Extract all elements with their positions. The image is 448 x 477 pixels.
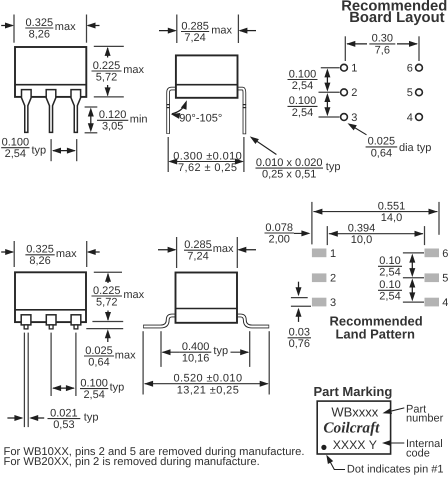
board layout dim 0.30 extension lines — [344, 36, 346, 61]
land pattern dim 0.551 line with arrows — [313, 211, 437, 213]
view D dim 0.400 extension lines — [160, 331, 162, 367]
land pattern pad 5 — [425, 273, 440, 282]
svg-text:10,0: 10,0 — [351, 234, 372, 246]
svg-text:number: number — [406, 413, 444, 425]
svg-text:2,00: 2,00 — [268, 234, 289, 246]
svg-text:0.025: 0.025 — [368, 136, 396, 148]
svg-text:max: max — [55, 21, 76, 33]
board layout dim 0.30/7,6 label — [369, 43, 395, 45]
view C dim 0.225/5,72 max label — [92, 295, 123, 297]
board layout dim 0.100/2,54 second label — [288, 105, 318, 107]
svg-text:5: 5 — [442, 273, 448, 285]
svg-text:min: min — [130, 113, 148, 125]
view B dim 0.285 arrows — [159, 30, 175, 32]
land pattern pad 3 — [312, 298, 327, 307]
view A dim 0.325 extension lines — [13, 15, 15, 43]
svg-text:0,64: 0,64 — [88, 356, 109, 368]
svg-text:0.078: 0.078 — [265, 222, 293, 234]
svg-text:3,05: 3,05 — [102, 121, 123, 133]
svg-text:1: 1 — [330, 248, 336, 260]
svg-text:max: max — [56, 248, 77, 260]
view D body outline — [176, 273, 238, 323]
svg-text:0.225: 0.225 — [93, 60, 121, 72]
svg-text:0.100: 0.100 — [80, 377, 108, 389]
svg-text:4: 4 — [442, 297, 448, 309]
view C dim 0.025/0,64 max label — [84, 355, 114, 357]
svg-text:0.021: 0.021 — [50, 407, 78, 419]
view C dim 0.100 pitch arrows — [53, 387, 74, 389]
svg-text:0.03: 0.03 — [289, 327, 310, 339]
board layout dim 0.100/2,54 first label — [288, 79, 318, 81]
svg-text:Coilcraft: Coilcraft — [323, 420, 380, 437]
svg-text:typ: typ — [32, 145, 47, 157]
board layout dia label 0.025/0,64 dia typ — [366, 146, 398, 148]
part marking pin 1 dot — [321, 445, 326, 450]
view D body base line — [176, 308, 238, 310]
view A body base line — [15, 84, 86, 86]
board layout hole 3 — [341, 114, 348, 121]
svg-text:0.10: 0.10 — [379, 255, 400, 267]
view A body outline — [15, 47, 86, 97]
svg-text:Land Pattern: Land Pattern — [335, 327, 415, 342]
svg-text:0.285: 0.285 — [184, 239, 212, 251]
svg-text:0,53: 0,53 — [53, 419, 74, 431]
svg-text:code: code — [406, 448, 430, 460]
svg-text:0.520 ±0.010: 0.520 ±0.010 — [174, 373, 243, 385]
svg-text:0.225: 0.225 — [93, 285, 121, 297]
land pattern dim rows arrows right — [411, 257, 413, 274]
land pattern pad 2 — [312, 273, 327, 282]
view A dim 0.225/5,72 max label — [92, 70, 122, 72]
internal code leader arrow — [384, 442, 404, 444]
land pattern dim 0.078/2,00 label with arrow — [265, 232, 294, 234]
view A pin 1 — [22, 90, 32, 133]
svg-text:dia typ: dia typ — [399, 142, 431, 154]
view A dim 0.325 arrows — [1, 25, 12, 27]
land pattern dim 0.10/2,54 second label — [378, 289, 402, 291]
view C pin 2 — [46, 315, 56, 325]
svg-text:0.400: 0.400 — [182, 341, 210, 353]
view B dim 0.300 extension lines — [167, 137, 169, 172]
svg-text:typ: typ — [326, 161, 341, 173]
svg-text:0.325: 0.325 — [26, 244, 54, 256]
view C dim 0.021/0,53 typ label — [48, 418, 81, 420]
svg-text:0.10: 0.10 — [379, 279, 400, 291]
view D left gull-wing lead — [143, 316, 176, 327]
land pattern pad 1 — [312, 249, 327, 258]
svg-text:2,54: 2,54 — [379, 267, 400, 279]
svg-text:7,24: 7,24 — [187, 251, 208, 263]
land pattern dim 0.10/2,54 first label — [378, 265, 402, 267]
svg-text:0.010 x 0.020: 0.010 x 0.020 — [256, 157, 323, 169]
view B dim 0.285 extension lines — [176, 15, 178, 44]
part marking box — [317, 401, 390, 454]
view D dim 0.285/7,24 max label — [184, 249, 212, 251]
board layout dim rows arrows — [326, 72, 328, 88]
svg-text:5: 5 — [407, 87, 413, 99]
view C seating plane line — [86, 328, 123, 330]
svg-text:5,72: 5,72 — [96, 296, 117, 308]
svg-text:0,25 x 0,51: 0,25 x 0,51 — [262, 169, 316, 181]
svg-text:0.100: 0.100 — [289, 68, 317, 80]
view D dim 0.285 extension lines — [176, 237, 178, 268]
board layout dim 0.30 arrows — [347, 43, 367, 45]
view A pin 2 — [46, 90, 56, 133]
land pattern pad 4 — [425, 298, 440, 307]
view A dim 0.100 pitch extension lines — [50, 139, 52, 161]
view D right gull-wing lead — [237, 316, 270, 327]
svg-text:1: 1 — [351, 63, 357, 75]
view A dim 0.120 arrows — [90, 112, 92, 128]
view B body outline — [176, 55, 238, 97]
view B left lead hatch marks — [166, 104, 169, 106]
svg-text:3: 3 — [351, 112, 357, 124]
view D dim 0.400/10,16 typ label — [180, 351, 211, 353]
svg-text:0.394: 0.394 — [348, 223, 376, 235]
board layout hole dia leader arrow — [350, 125, 367, 135]
svg-text:5,72: 5,72 — [96, 71, 117, 83]
svg-text:10,16: 10,16 — [182, 353, 210, 365]
land pattern pad height ticks — [291, 297, 308, 299]
svg-text:7,6: 7,6 — [375, 44, 390, 56]
svg-text:0.325: 0.325 — [26, 17, 54, 29]
svg-text:0.100: 0.100 — [289, 95, 317, 107]
view A pin 3 — [71, 90, 81, 133]
view C dim 0.021 arrows — [7, 417, 21, 419]
view C dim 0.225 arrows — [107, 274, 109, 283]
view C pin 2 extension line — [50, 333, 52, 396]
view C dim 0.325/8,26 max label — [25, 254, 54, 256]
board layout hole 4 — [416, 114, 423, 121]
view C body base line — [15, 309, 86, 311]
board layout hole 5 — [416, 89, 423, 96]
land pattern pad 6 — [425, 249, 440, 258]
view C pin 1 — [21, 315, 31, 325]
view B body base line — [176, 84, 238, 86]
svg-text:2: 2 — [330, 273, 336, 285]
view A dim 0.225 extension lines — [94, 45, 124, 47]
view D dim 0.285 arrows — [158, 249, 175, 251]
svg-text:Board Layout: Board Layout — [349, 10, 444, 26]
svg-text:max: max — [213, 243, 234, 255]
svg-text:2,54: 2,54 — [292, 80, 313, 92]
svg-text:0.300 ±0.010: 0.300 ±0.010 — [173, 150, 242, 162]
svg-text:typ: typ — [84, 412, 99, 424]
svg-text:7,24: 7,24 — [184, 32, 205, 44]
land pattern dim 0.551 extension lines — [311, 202, 313, 245]
svg-text:7,62 ± 0,25: 7,62 ± 0,25 — [178, 162, 237, 174]
svg-text:max: max — [123, 64, 144, 76]
svg-text:For WB20XX, pin 2 is removed d: For WB20XX, pin 2 is removed during manu… — [4, 456, 260, 468]
svg-text:3: 3 — [330, 297, 336, 309]
view D dim 0.520 line with arrows — [145, 383, 172, 385]
svg-text:2,54: 2,54 — [292, 107, 313, 119]
svg-text:max: max — [115, 349, 136, 361]
view C body outline — [15, 272, 86, 322]
svg-text:2: 2 — [351, 87, 357, 99]
board layout hole 2 — [341, 89, 348, 96]
view B dim 0.285/7,24 max label — [181, 31, 209, 33]
svg-text:0.285: 0.285 — [181, 20, 209, 32]
view C dim 0.100/2,54 typ label — [80, 388, 108, 390]
svg-text:0.120: 0.120 — [99, 109, 127, 121]
svg-text:WBxxxx: WBxxxx — [331, 405, 378, 420]
land pattern row ticks right — [403, 252, 424, 254]
svg-text:90°-105°: 90°-105° — [179, 112, 222, 124]
view B dim 0.300 line with arrows — [170, 161, 242, 163]
view B right lead hatch marks — [243, 104, 246, 106]
part number leader arrow — [385, 408, 405, 413]
view C foot width extension lines — [23, 333, 25, 428]
svg-text:0,64: 0,64 — [371, 147, 392, 159]
svg-text:XXXX Y: XXXX Y — [333, 438, 377, 452]
svg-text:6: 6 — [407, 63, 413, 75]
svg-text:typ: typ — [213, 345, 228, 357]
svg-text:0.30: 0.30 — [372, 33, 393, 45]
svg-text:max: max — [211, 25, 232, 37]
board layout hole 1 — [341, 64, 348, 71]
svg-text:0.100: 0.100 — [2, 137, 30, 149]
svg-text:8,26: 8,26 — [29, 255, 50, 267]
view B right lead — [238, 89, 244, 135]
view B lead size label 0.010 x 0.020 — [256, 167, 324, 169]
view A dim 0.100 pitch arrows — [53, 150, 75, 152]
view C dim 0.025 arrow — [107, 332, 109, 343]
view A dim 0.325/8,26 max label — [25, 27, 53, 29]
svg-text:0.551: 0.551 — [378, 201, 406, 213]
view B lead size leader arrow — [253, 138, 277, 154]
svg-text:0.025: 0.025 — [85, 345, 113, 357]
board layout row ticks — [321, 67, 340, 69]
view B left lead — [168, 89, 175, 134]
svg-text:14,0: 14,0 — [381, 212, 402, 224]
view A dim 0.100/2,54 typ label — [1, 147, 29, 149]
svg-text:2,54: 2,54 — [379, 291, 400, 303]
dot leader arrow — [327, 457, 345, 470]
land pattern pad height arrows — [298, 282, 300, 295]
svg-text:typ: typ — [110, 382, 125, 394]
view A dim 0.225 arrows — [107, 48, 109, 58]
view C dim 0.225 extension lines — [94, 271, 122, 273]
view C pin 3 — [71, 315, 81, 325]
svg-text:0,76: 0,76 — [289, 338, 310, 350]
board layout hole 6 — [416, 64, 423, 71]
view A dim 0.120 ticks — [85, 106, 98, 108]
svg-text:4: 4 — [407, 112, 413, 124]
svg-text:13,21 ±0,25: 13,21 ±0,25 — [177, 384, 239, 396]
land pattern dim 0.394 extension lines — [326, 226, 328, 245]
land pattern dim 0.394 line with arrows — [329, 233, 423, 235]
svg-text:2,54: 2,54 — [83, 389, 104, 401]
svg-text:Part Marking: Part Marking — [314, 384, 393, 399]
svg-text:8,26: 8,26 — [29, 28, 50, 40]
view D dim 0.520 extension lines — [142, 331, 144, 394]
svg-text:Dot indicates pin #1: Dot indicates pin #1 — [347, 463, 444, 475]
svg-text:max: max — [123, 289, 144, 301]
view C dim 0.325 arrows — [1, 251, 13, 253]
view C pin 3 extension line — [75, 333, 77, 396]
view D dim 0.400 line with arrows — [163, 351, 180, 353]
svg-text:2,54: 2,54 — [5, 148, 26, 160]
land pattern dim 0.03/0,76 label — [288, 337, 311, 339]
view A dim 0.120/3,05 min label — [97, 119, 128, 121]
svg-text:6: 6 — [442, 248, 448, 260]
view B lead angle arrow — [172, 103, 186, 114]
view C dim 0.325 extension lines — [13, 241, 15, 267]
